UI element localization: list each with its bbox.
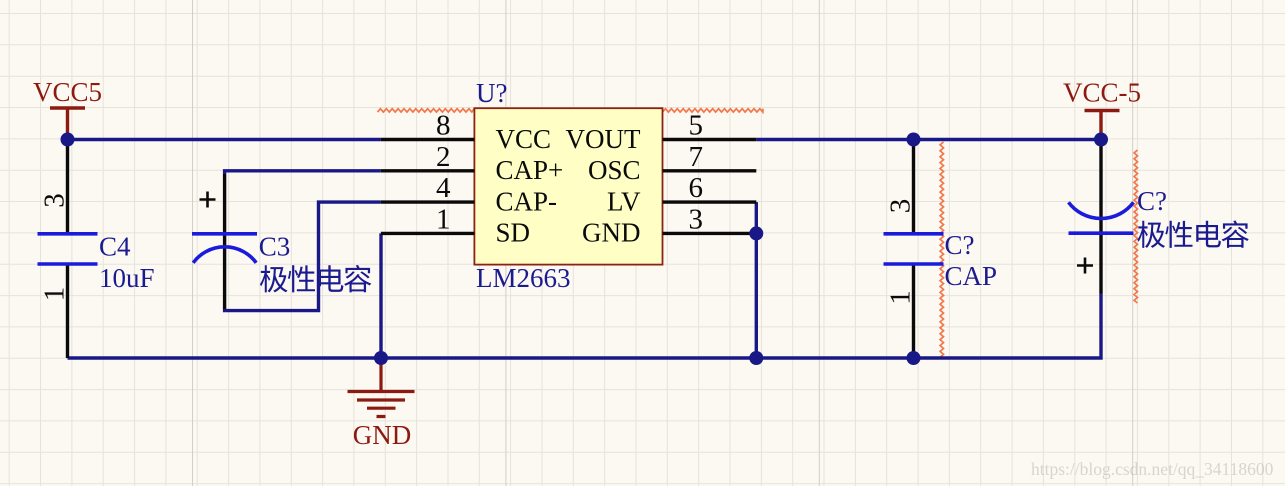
- grid major lines: [193, 0, 1133, 486]
- svg-text:8: 8: [436, 110, 451, 142]
- wire pin 5 to VCC-5 rail (top right): [756, 138, 1101, 141]
- svg-text:CAP-: CAP-: [496, 186, 558, 216]
- wire C3 bottom plate loop to pin 4 (CAP-): [225, 202, 381, 311]
- C3 curved plate: [193, 247, 256, 263]
- C3 polarity plus sign: [200, 192, 216, 208]
- capacitor C? CAP: [884, 140, 998, 359]
- right pin names: [566, 124, 641, 248]
- wire pin 1 (SD) to ground rail: [379, 233, 382, 358]
- capacitor C? (polarized, right): [1069, 143, 1249, 294]
- no-ERC squiggle right of capacitor C?: [940, 142, 943, 358]
- svg-text:https://blog.csdn.net/qq_34118: https://blog.csdn.net/qq_34118600: [1031, 459, 1274, 479]
- svg-text:GND: GND: [582, 218, 641, 248]
- svg-text:C3: C3: [259, 232, 291, 262]
- svg-text:U?: U?: [476, 78, 507, 108]
- svg-text:3: 3: [885, 199, 917, 214]
- node junction pin 3: [749, 226, 763, 240]
- U1 right pins 5,7,6,3: [663, 140, 757, 234]
- svg-text:VOUT: VOUT: [566, 124, 641, 154]
- no-ERC squiggle over pin 5 stub: [663, 109, 764, 112]
- ground bars: [348, 358, 415, 417]
- svg-text:3: 3: [39, 193, 71, 208]
- svg-text:3: 3: [689, 203, 704, 235]
- IC U? LM2663: [381, 78, 756, 293]
- svg-text:1: 1: [39, 287, 71, 302]
- node junction top-left: [61, 133, 75, 147]
- svg-text:OSC: OSC: [588, 155, 641, 185]
- svg-text:7: 7: [689, 141, 704, 173]
- svg-text:LM2663: LM2663: [476, 263, 571, 293]
- capacitor C4: [38, 140, 155, 359]
- U1 left pins 8,2,4,1: [381, 140, 475, 234]
- svg-text:C4: C4: [99, 232, 131, 262]
- svg-text:VCC: VCC: [496, 124, 552, 154]
- svg-text:1: 1: [885, 290, 917, 305]
- wire VCC5 to pin 8 (top left): [68, 138, 381, 141]
- svg-text:VCC5: VCC5: [33, 77, 102, 107]
- no-ERC squiggle over pin 8 stub: [378, 109, 475, 112]
- comment text 极性电容 (right): [1137, 221, 1248, 248]
- node junction VCC-5: [1094, 133, 1108, 147]
- node junction C? top: [907, 133, 921, 147]
- svg-text:C?: C?: [945, 230, 975, 260]
- svg-text:5: 5: [689, 110, 704, 142]
- C4 plates: [38, 234, 98, 264]
- svg-text:CAP+: CAP+: [496, 155, 564, 185]
- capacitor C3 (polarized): [192, 174, 371, 309]
- wire C3 top plate to pin 2 (CAP+): [225, 171, 381, 174]
- svg-text:LV: LV: [607, 186, 641, 216]
- C? (right) curved plate: [1069, 202, 1134, 218]
- svg-text:VCC-5: VCC-5: [1063, 78, 1141, 108]
- C? (right) pin leads: [1099, 143, 1102, 294]
- no-ERC squiggle right of polarized capacitor C?: [1134, 150, 1137, 303]
- wire bottom ground rail: [68, 294, 1102, 359]
- power VCC-5: [1063, 78, 1141, 140]
- power VCC5: [33, 77, 102, 140]
- svg-text:SD: SD: [496, 218, 531, 248]
- svg-text:6: 6: [689, 172, 704, 204]
- ground symbol GND: [348, 358, 415, 450]
- comment text 极性电容: [260, 265, 371, 292]
- C4 pin leads: [66, 140, 69, 359]
- svg-text:2: 2: [436, 141, 451, 173]
- svg-text:C?: C?: [1137, 186, 1167, 216]
- node junction ground rail at C?: [907, 351, 921, 365]
- C3 pin leads: [223, 174, 226, 309]
- right pin numbers: [689, 110, 704, 236]
- svg-text:GND: GND: [353, 420, 412, 450]
- svg-text:4: 4: [436, 172, 451, 204]
- U1 body: [474, 108, 662, 264]
- wire pin 6 (LV) and pin 3 (GND) to ground rail: [755, 202, 758, 358]
- C? plates: [884, 234, 944, 264]
- node junction ground rail at LV/GND drop: [749, 351, 763, 365]
- C? (right) polarity plus sign: [1077, 258, 1093, 274]
- VCC-5 bar symbol: [1085, 111, 1120, 140]
- left pin numbers: [436, 110, 451, 236]
- svg-text:CAP: CAP: [945, 261, 998, 291]
- left pin names: [496, 124, 564, 248]
- C? (right) straight plate: [1069, 231, 1134, 235]
- svg-text:10uF: 10uF: [99, 263, 155, 293]
- C3 straight plate: [192, 232, 257, 236]
- svg-text:1: 1: [436, 203, 451, 235]
- VCC5 bar symbol: [50, 108, 85, 140]
- node junction ground rail at GND: [374, 351, 388, 365]
- C? pin leads: [912, 140, 915, 359]
